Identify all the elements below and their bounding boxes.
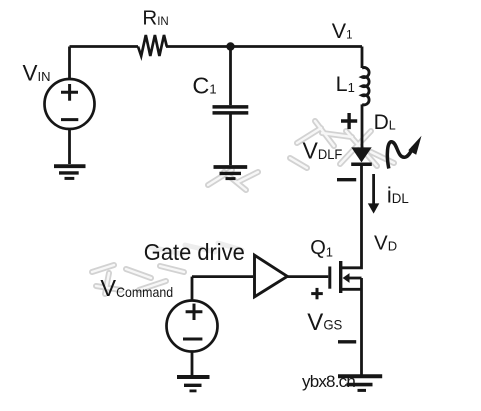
svg-text:Gate drive: Gate drive [144,239,245,265]
svg-text:VGS: VGS [307,309,342,336]
svg-text:VDLF: VDLF [303,138,343,164]
svg-text:VCommand: VCommand [100,275,173,301]
svg-text:V1: V1 [332,19,353,43]
svg-text:C1: C1 [192,73,216,99]
svg-text:Q1: Q1 [310,237,333,260]
svg-text:VIN: VIN [23,60,51,85]
svg-text:DL: DL [374,111,396,134]
svg-text:iDL: iDL [387,182,409,207]
svg-text:RIN: RIN [142,6,168,29]
svg-text:L1: L1 [336,72,355,96]
svg-text:VD: VD [374,231,397,254]
svg-text:ybx8.cn: ybx8.cn [302,372,355,391]
